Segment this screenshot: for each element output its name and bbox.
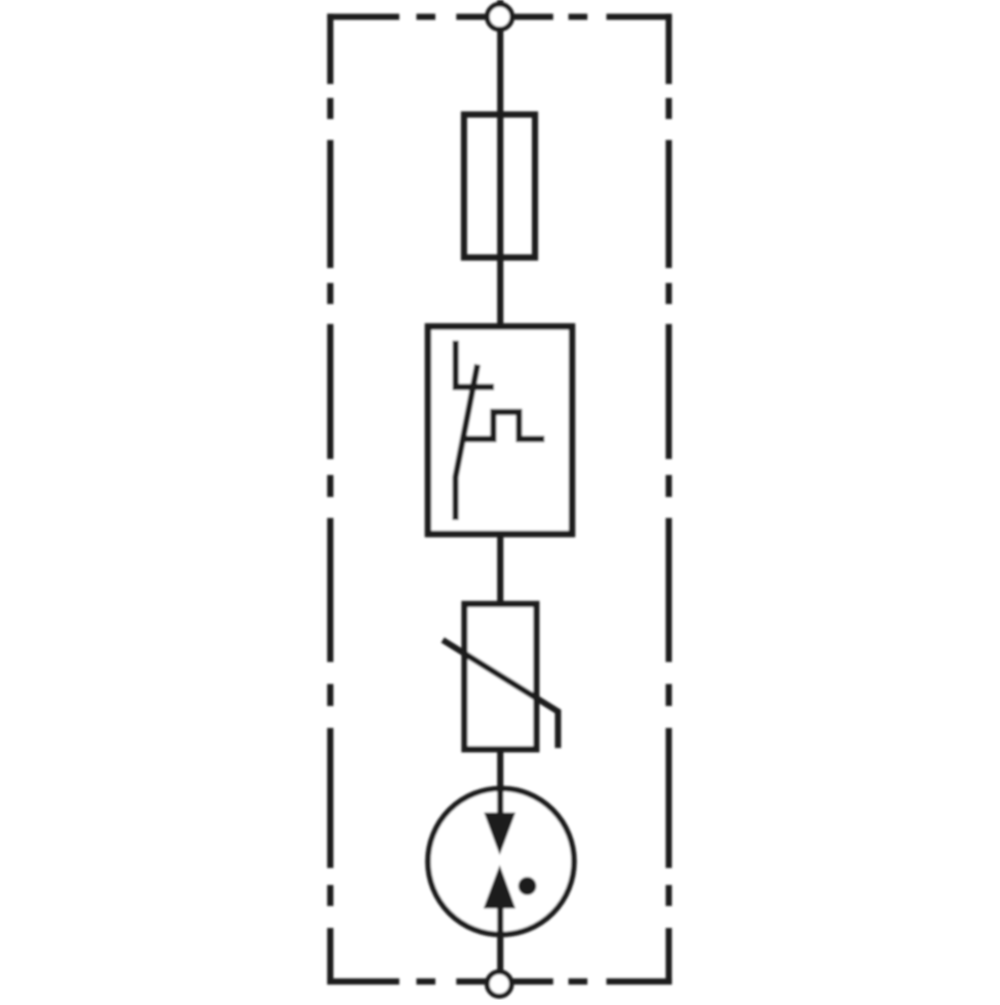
spark gap upper electrode (down arrow) — [484, 813, 516, 856]
wire: varistor to spark gap upper electrode — [497, 746, 503, 816]
surge impulse (square wave) symbol — [465, 412, 544, 439]
enclosure dash-dot border: bottom edge — [327, 978, 672, 984]
varistor RV1 body — [465, 604, 537, 749]
spark gap trigger dot — [518, 877, 536, 895]
enclosure dash-dot border: right edge — [666, 14, 672, 985]
wire: disconnector box to varistor — [497, 531, 503, 607]
fuse / disconnect device body — [464, 115, 535, 258]
wire: spark gap lower electrode to bottom terminal — [497, 905, 503, 984]
disconnector contact tick — [453, 384, 494, 390]
varistor diagonal stroke with hook — [443, 640, 558, 748]
disconnector fixed contact stub — [453, 341, 459, 390]
enclosure dash-dot border: left edge — [327, 14, 333, 985]
spark gap F1 body circle — [428, 789, 574, 935]
enclosure dash-dot border: top edge — [327, 14, 672, 20]
top terminal node — [487, 4, 512, 29]
wire: top terminal to disconnector box (through fuse) — [497, 0, 503, 330]
spark gap lower electrode (up arrow) — [484, 865, 516, 909]
bottom terminal node — [487, 972, 511, 996]
disconnector switch blade — [456, 365, 478, 521]
thermal disconnector box U1 — [428, 327, 572, 535]
